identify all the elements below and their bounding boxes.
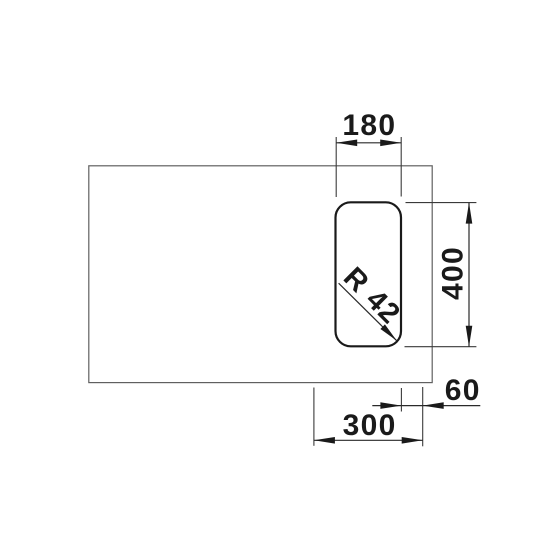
- dim 60 left arrowhead (outside, pointing right): [380, 402, 401, 409]
- svg-text:300: 300: [343, 409, 397, 442]
- dim 300 left extension line: [313, 388, 315, 446]
- dim 400 dimension line: [468, 203, 470, 347]
- radius leader line R42: [339, 283, 397, 341]
- dim 400 top arrowhead: [466, 203, 473, 224]
- dim 180 left extension line: [335, 137, 337, 197]
- svg-text:180: 180: [342, 109, 396, 142]
- dim 300 dimension line: [314, 439, 423, 441]
- dim 60 dimension line: [372, 405, 480, 407]
- dim 400 bottom arrowhead: [466, 326, 473, 347]
- dim 180 left arrowhead: [336, 140, 357, 147]
- worktop outline: [89, 166, 432, 383]
- radius leader arrowhead: [380, 324, 396, 340]
- dim 400 top extension line: [406, 202, 477, 204]
- dim 300 right arrowhead: [402, 437, 423, 444]
- svg-text:60: 60: [445, 374, 481, 407]
- dim 60 extension line (basin right edge): [400, 388, 402, 412]
- dim 180 dimension line: [336, 142, 401, 144]
- dim 180 right arrowhead: [380, 140, 401, 147]
- dim 180 right extension line: [400, 137, 402, 197]
- dim 60 right arrowhead (outside, pointing left): [423, 402, 444, 409]
- dim 300 left arrowhead: [314, 437, 335, 444]
- basin cutout: [336, 202, 402, 346]
- dim 300 right extension line (shared with dim 60): [422, 387, 424, 446]
- dim 400 bottom extension line: [405, 346, 477, 348]
- svg-text:400: 400: [436, 246, 469, 300]
